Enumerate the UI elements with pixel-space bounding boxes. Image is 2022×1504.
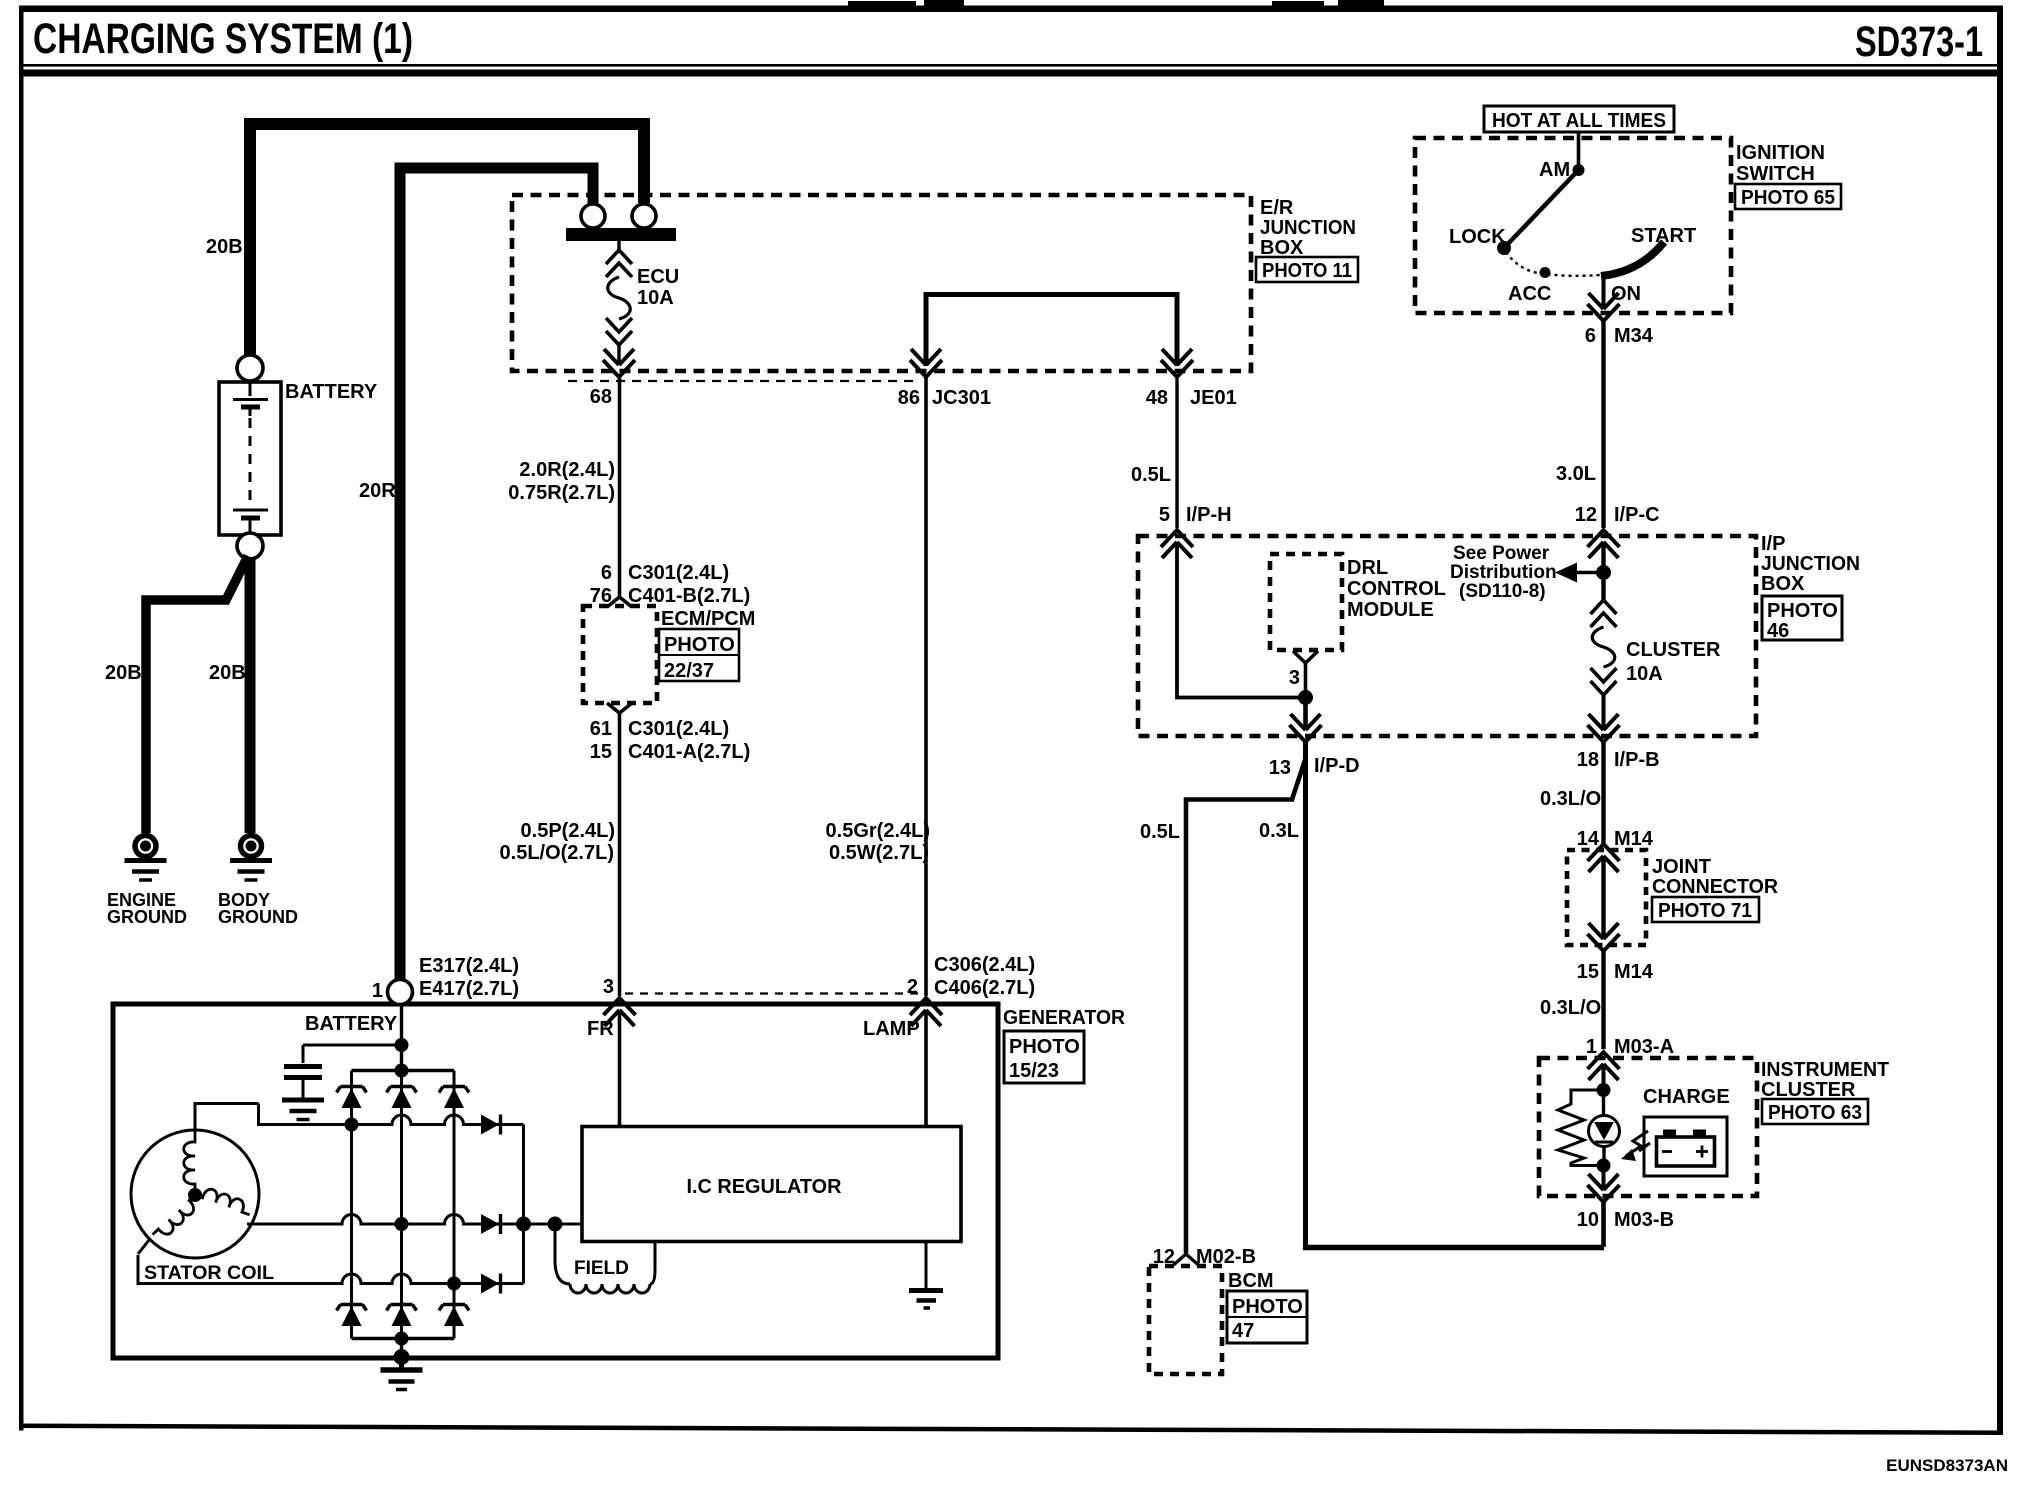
connector 18 I/P-B [1588, 714, 1620, 742]
svg-text:M14: M14 [1614, 828, 1654, 850]
generator ground [381, 1339, 423, 1390]
svg-text:M03-B: M03-B [1614, 1209, 1674, 1231]
wire I/P-H to junction [1177, 545, 1306, 698]
diode D4 bottom [337, 1305, 367, 1327]
stator left lead [138, 1240, 149, 1254]
stator winding left [153, 1195, 203, 1243]
svg-text:LOCK: LOCK [1449, 226, 1506, 248]
node row1 col1 [345, 1118, 359, 1132]
svg-text:C301(2.4L): C301(2.4L) [628, 562, 729, 584]
svg-text:6: 6 [601, 562, 612, 584]
joint connector box (dashed) [1567, 850, 1646, 945]
node top bus [395, 1064, 409, 1078]
svg-text:SWITCH: SWITCH [1736, 163, 1815, 185]
fusible link bus bar [566, 228, 676, 241]
fuse CLUSTER 10A [1591, 600, 1617, 728]
lamp flash arrows [1621, 1131, 1650, 1161]
svg-text:12: 12 [1575, 504, 1597, 526]
photo ref box PHOTO 22/37 [659, 629, 739, 682]
svg-text:0.5P(2.4L): 0.5P(2.4L) [521, 820, 615, 842]
resistor shunt [1558, 1090, 1604, 1166]
label 0.5Gr(2.4L) 0.5W(2.7L) [826, 820, 930, 864]
svg-text:C406(2.7L): C406(2.7L) [934, 977, 1035, 999]
HOT AT ALL TIMES tag [1484, 106, 1674, 132]
stator winding right [195, 1184, 253, 1214]
connector 15 M14 [1588, 923, 1620, 951]
label E/R JUNCTION BOX [1260, 197, 1356, 259]
battery symbol [219, 355, 281, 559]
svg-text:I/P-H: I/P-H [1186, 504, 1232, 526]
svg-text:E/R: E/R [1260, 197, 1294, 219]
svg-text:20B: 20B [206, 236, 243, 258]
svg-text:10A: 10A [637, 287, 674, 309]
svg-text:CLUSTER: CLUSTER [1761, 1079, 1856, 1101]
BCM box (dashed) [1149, 1266, 1222, 1374]
svg-text:18: 18 [1577, 749, 1599, 771]
wire junction to I/P-D [1303, 698, 1308, 731]
svg-text:AM: AM [1539, 159, 1570, 181]
svg-text:PHOTO 63: PHOTO 63 [1768, 1102, 1862, 1124]
label 15 M14 [1577, 961, 1654, 983]
wire bottom return run [1303, 1245, 1604, 1251]
svg-text:C401-A(2.7L): C401-A(2.7L) [628, 741, 750, 763]
svg-text:GROUND: GROUND [218, 907, 298, 927]
svg-text:0.5Gr(2.4L): 0.5Gr(2.4L) [826, 820, 930, 842]
svg-text:JUNCTION: JUNCTION [1260, 217, 1356, 239]
diode bridge bottom bus [352, 1337, 455, 1341]
node row3 col3 [447, 1277, 461, 1291]
wire M34 to I/P-C [1601, 321, 1605, 528]
wire ON output [1602, 276, 1606, 309]
label 2.0R(2.4L) 0.75R(2.7L) [508, 459, 615, 504]
label 12 I/P-C [1575, 504, 1660, 526]
svg-text:CLUSTER: CLUSTER [1626, 639, 1721, 661]
node lamp top [1597, 1083, 1611, 1097]
ignition switch box (dashed) [1415, 138, 1731, 313]
svg-text:BATTERY: BATTERY [305, 1013, 398, 1035]
label E317(2.4L) E417(2.7L) [419, 955, 519, 1000]
E/R junction box (dashed) [512, 195, 1251, 371]
wire I/P-D main run down [1303, 742, 1308, 1247]
wire LAMP to regulator [924, 1013, 928, 1127]
svg-text:0.5W(2.7L): 0.5W(2.7L) [829, 842, 929, 864]
label 10 M03-B [1577, 1209, 1674, 1231]
svg-text:48: 48 [1146, 387, 1168, 409]
svg-text:6: 6 [1585, 325, 1596, 347]
I.C regulator box [582, 1127, 961, 1242]
field winding [555, 1224, 655, 1293]
pin 1 terminal circle [388, 980, 413, 1005]
svg-text:PHOTO 11: PHOTO 11 [1262, 260, 1352, 282]
node junction at 697 [1298, 690, 1313, 705]
svg-text:ECU: ECU [637, 266, 679, 288]
stator top lead [195, 1104, 259, 1132]
label 6 M34 [1585, 325, 1654, 347]
svg-text:ECM/PCM: ECM/PCM [661, 608, 755, 630]
node bottom bus [395, 1332, 409, 1346]
node LOCK [1497, 241, 1511, 255]
wire battery negative to body ground [245, 559, 256, 833]
wire 68 to ECM/PCM [618, 377, 622, 598]
svg-text:3: 3 [1289, 667, 1300, 689]
svg-text:C306(2.4L): C306(2.4L) [934, 954, 1035, 976]
svg-text:JOINT: JOINT [1652, 856, 1711, 878]
svg-text:68: 68 [590, 386, 612, 408]
svg-text:STATOR COIL: STATOR COIL [144, 1263, 274, 1284]
diode output bus vertical [522, 1125, 525, 1284]
svg-text:22/37: 22/37 [664, 660, 714, 682]
connector fork DRL pin 3 [1293, 651, 1318, 663]
svg-text:3.0L: 3.0L [1556, 463, 1596, 485]
svg-text:GROUND: GROUND [107, 907, 187, 927]
svg-text:20R: 20R [359, 480, 396, 502]
diode D7 right row1 [481, 1115, 501, 1135]
svg-text:FR: FR [587, 1018, 614, 1040]
svg-text:15/23: 15/23 [1009, 1060, 1059, 1082]
svg-text:47: 47 [1232, 1320, 1254, 1342]
svg-text:0.5L: 0.5L [1131, 464, 1171, 486]
diode bridge top bus [352, 1069, 455, 1073]
connector 14 M14 [1588, 844, 1620, 872]
switch lever AM-LOCK [1504, 170, 1579, 248]
connector ring on bar (20R side) [581, 204, 605, 228]
label INSTRUMENT CLUSTER [1761, 1059, 1889, 1101]
svg-text:0.75R(2.7L): 0.75R(2.7L) [508, 482, 615, 504]
svg-text:CONTROL: CONTROL [1347, 578, 1446, 600]
label 0.5P(2.4L) 0.5L/O(2.7L) [500, 820, 615, 864]
svg-text:86: 86 [898, 387, 920, 409]
svg-text:CHARGING SYSTEM (1): CHARGING SYSTEM (1) [33, 15, 413, 63]
diode D9 right row3 [481, 1274, 501, 1294]
svg-text:MODULE: MODULE [1347, 599, 1434, 621]
connector 5 I/P-H [1161, 530, 1193, 558]
node AM [1573, 164, 1585, 176]
svg-text:0.3L/O: 0.3L/O [1540, 788, 1601, 810]
svg-text:CHARGE: CHARGE [1643, 1086, 1730, 1108]
node field tap [548, 1217, 563, 1232]
svg-text:BOX: BOX [1761, 573, 1805, 595]
svg-text:10A: 10A [1626, 663, 1663, 685]
svg-text:JUNCTION: JUNCTION [1761, 553, 1860, 575]
label ECU 10A [637, 266, 679, 309]
svg-text:0.5L: 0.5L [1140, 821, 1180, 843]
wire JE01 to I/P-H [1175, 377, 1178, 528]
stator phase row 2 [247, 1215, 582, 1225]
diode D8 right row2 [481, 1214, 501, 1234]
svg-text:0.3L/O: 0.3L/O [1540, 997, 1601, 1019]
charge warning lamp (LED) [1589, 1090, 1620, 1166]
svg-text:CONNECTOR: CONNECTOR [1652, 876, 1779, 898]
wire AM feed [1577, 132, 1581, 170]
svg-text:PHOTO: PHOTO [1232, 1296, 1303, 1318]
stator phase row 1 [259, 1104, 524, 1125]
svg-text:20B: 20B [105, 662, 142, 684]
label 14 M14 [1577, 828, 1654, 850]
stator coil circle [131, 1130, 259, 1258]
engine ground symbol [125, 836, 167, 881]
wire jumper JC301 to JE01 [926, 295, 1177, 367]
wire inside joint connector [1601, 858, 1605, 939]
label CLUSTER 10A [1626, 639, 1721, 685]
svg-text:13: 13 [1269, 757, 1291, 779]
E/R junction box inner dashed line [568, 380, 913, 382]
wire M03-B down to return [1601, 1202, 1606, 1247]
svg-text:20B: 20B [209, 662, 246, 684]
svg-text:PHOTO 71: PHOTO 71 [1658, 900, 1752, 922]
I/P junction box (dashed) [1138, 536, 1756, 736]
connector 48 JE01 [1161, 349, 1193, 377]
svg-text:10: 10 [1577, 1209, 1599, 1231]
svg-text:BOX: BOX [1260, 237, 1304, 259]
wire battery negative branch to engine ground [146, 556, 248, 833]
label I/P JUNCTION BOX [1761, 533, 1860, 595]
svg-text:IGNITION: IGNITION [1736, 142, 1825, 164]
svg-text:M34: M34 [1614, 325, 1654, 347]
wire M14 to M03-A [1601, 951, 1605, 1049]
connector 68 (E/R box exit) [603, 349, 635, 377]
wire JC301 to generator LAMP [924, 377, 928, 996]
fuse ECU 10A [606, 241, 632, 364]
label 5 I/P-H [1159, 504, 1232, 526]
instrument cluster box (dashed) [1539, 1058, 1757, 1196]
node capacitor branch [395, 1038, 409, 1052]
connector 86 JC301 [910, 349, 942, 377]
svg-text:I/P-C: I/P-C [1614, 504, 1660, 526]
connector ring on bar (20B side) [632, 204, 656, 228]
svg-text:I/P: I/P [1761, 533, 1785, 555]
pin labels 6 C301 / 76 C401-B [590, 562, 751, 607]
label See Power Distribution (SD110-8) [1450, 543, 1557, 602]
svg-text:2: 2 [907, 976, 918, 998]
capacitor [284, 1067, 322, 1100]
photo ref box PHOTO 63 [1762, 1099, 1868, 1124]
svg-text:FIELD: FIELD [574, 1258, 629, 1279]
svg-text:I/P-D: I/P-D [1314, 755, 1360, 777]
label 18 I/P-B [1577, 749, 1660, 771]
body ground symbol [230, 836, 272, 881]
connector 3 FR [604, 998, 636, 1026]
regulator ground [909, 1241, 943, 1308]
svg-text:0.5L/O(2.7L): 0.5L/O(2.7L) [500, 842, 614, 864]
node I/P-C junction [1596, 565, 1611, 580]
wire ECM to generator FR [618, 713, 622, 996]
svg-text:DRL: DRL [1347, 557, 1388, 579]
stator winding top [184, 1131, 195, 1195]
diode D5 bottom [387, 1305, 417, 1327]
connector 12 I/P-C [1588, 530, 1620, 558]
svg-text:LAMP: LAMP [863, 1018, 920, 1040]
svg-text:BCM: BCM [1228, 1270, 1274, 1292]
diode column 3 [453, 1071, 456, 1339]
wire diode bus to regulator with field tap [531, 1223, 582, 1226]
wire lamp to M03-B [1602, 1166, 1606, 1191]
connector fork at ECM bottom [607, 703, 632, 713]
label DRL CONTROL MODULE [1347, 557, 1446, 621]
wire 20B battery positive cable to fuse bar [250, 124, 644, 356]
svg-text:E417(2.7L): E417(2.7L) [419, 978, 519, 1000]
wire FR to regulator [618, 1013, 622, 1127]
svg-text:0.3L: 0.3L [1259, 820, 1299, 842]
wire branch to BCM (0.5L) [1186, 757, 1306, 1253]
svg-text:1: 1 [372, 980, 383, 1002]
capacitor branch wire [303, 1045, 402, 1063]
svg-text:C301(2.4L): C301(2.4L) [628, 718, 729, 740]
diode D3 top [439, 1087, 469, 1109]
svg-text:JE01: JE01 [1190, 387, 1237, 409]
photo ref box PHOTO 11 [1256, 257, 1358, 282]
photo ref box PHOTO 46 [1762, 596, 1842, 642]
svg-text:(SD110-8): (SD110-8) [1459, 581, 1546, 602]
photo ref box PHOTO 65 [1735, 184, 1841, 209]
label 86 JC301 [898, 387, 991, 409]
pin labels 61 C301 / 15 C401-A [590, 718, 751, 763]
node ACC [1540, 267, 1551, 278]
connector 1 M03-A [1588, 1052, 1620, 1080]
svg-text:BATTERY: BATTERY [285, 381, 378, 403]
node row2 col2 [395, 1217, 409, 1231]
node lamp bottom [1597, 1159, 1611, 1173]
label 48 JE01 [1146, 387, 1237, 409]
wire 20R generator to fuse bar [400, 168, 593, 981]
label 1 M03-A [1586, 1036, 1674, 1058]
svg-text:46: 46 [1767, 620, 1789, 642]
svg-text:I.C REGULATOR: I.C REGULATOR [687, 1176, 843, 1198]
DRL control module box (dashed) [1270, 554, 1342, 650]
pin dashed line 3 to 2 [625, 992, 919, 994]
wire into cluster [1602, 1067, 1606, 1090]
svg-text:EUNSD8373AN: EUNSD8373AN [1886, 1456, 2008, 1475]
svg-text:M03-A: M03-A [1614, 1036, 1674, 1058]
diode column 1 [350, 1071, 353, 1339]
svg-text:JC301: JC301 [932, 387, 991, 409]
svg-text:2.0R(2.4L): 2.0R(2.4L) [519, 459, 615, 481]
battery tell-tale icon [1644, 1117, 1727, 1176]
svg-text:ACC: ACC [1508, 283, 1551, 305]
svg-text:PHOTO 65: PHOTO 65 [1741, 187, 1835, 209]
photo ref box PHOTO 47 [1227, 1291, 1307, 1343]
connector 6 M34 [1588, 293, 1620, 321]
connector fork at ECM top [607, 597, 632, 607]
connector 13 I/P-D [1290, 714, 1322, 742]
label 12 M02-B [1153, 1246, 1256, 1268]
photo ref box PHOTO 71 [1652, 897, 1759, 922]
wire I/P-B to M14 [1601, 742, 1605, 846]
diode column 2 [400, 1071, 403, 1339]
photo ref box PHOTO 15/23 [1004, 1031, 1084, 1083]
svg-text:5: 5 [1159, 504, 1170, 526]
svg-text:1: 1 [1586, 1036, 1597, 1058]
svg-text:INSTRUMENT: INSTRUMENT [1761, 1059, 1889, 1081]
wire DRL pin3 down [1304, 663, 1308, 697]
diode D2 top [387, 1087, 417, 1109]
switch detent arc dotted LOCK-ACC-ON [1506, 252, 1600, 276]
wire battery pin column [400, 1004, 403, 1071]
node diode bus row2 [516, 1217, 531, 1232]
svg-text:M14: M14 [1614, 961, 1654, 983]
stator phase row 3 [138, 1255, 524, 1284]
svg-text:HOT AT ALL TIMES: HOT AT ALL TIMES [1492, 110, 1666, 132]
connector 10 M03-B [1588, 1174, 1620, 1202]
label C306(2.4L) C406(2.7L) [934, 954, 1035, 999]
connector 2 LAMP [910, 998, 942, 1026]
see power distribution arrow [1555, 563, 1604, 583]
switch arc START-ON (thick) [1601, 242, 1664, 276]
label 13 I/P-D [1269, 755, 1360, 779]
wire I/P-C into box [1601, 545, 1605, 600]
node stator centre [188, 1188, 202, 1202]
capacitor ground [282, 1100, 324, 1120]
svg-text:I/P-B: I/P-B [1614, 749, 1660, 771]
svg-text:15: 15 [590, 741, 612, 763]
label JOINT CONNECTOR [1652, 856, 1779, 898]
svg-text:61: 61 [590, 718, 612, 740]
svg-text:Distribution: Distribution [1450, 562, 1557, 583]
label IGNITION SWITCH [1736, 142, 1825, 185]
svg-text:PHOTO: PHOTO [1767, 600, 1838, 622]
generator box [113, 1004, 998, 1358]
svg-text:C401-B(2.7L): C401-B(2.7L) [628, 585, 750, 607]
svg-text:PHOTO: PHOTO [664, 634, 735, 656]
svg-text:See Power: See Power [1453, 543, 1550, 564]
svg-text:SD373-1: SD373-1 [1855, 18, 1983, 66]
svg-text:15: 15 [1577, 961, 1599, 983]
connector fork 12 M02-B [1174, 1254, 1199, 1265]
diode D6 bottom [439, 1305, 469, 1327]
svg-text:PHOTO: PHOTO [1009, 1036, 1080, 1058]
ECM/PCM box (dashed) [583, 606, 657, 703]
svg-text:3: 3 [603, 976, 614, 998]
svg-text:E317(2.4L): E317(2.4L) [419, 955, 519, 977]
svg-text:14: 14 [1577, 828, 1600, 850]
svg-text:GENERATOR: GENERATOR [1003, 1007, 1126, 1029]
diode D1 top [337, 1087, 367, 1109]
